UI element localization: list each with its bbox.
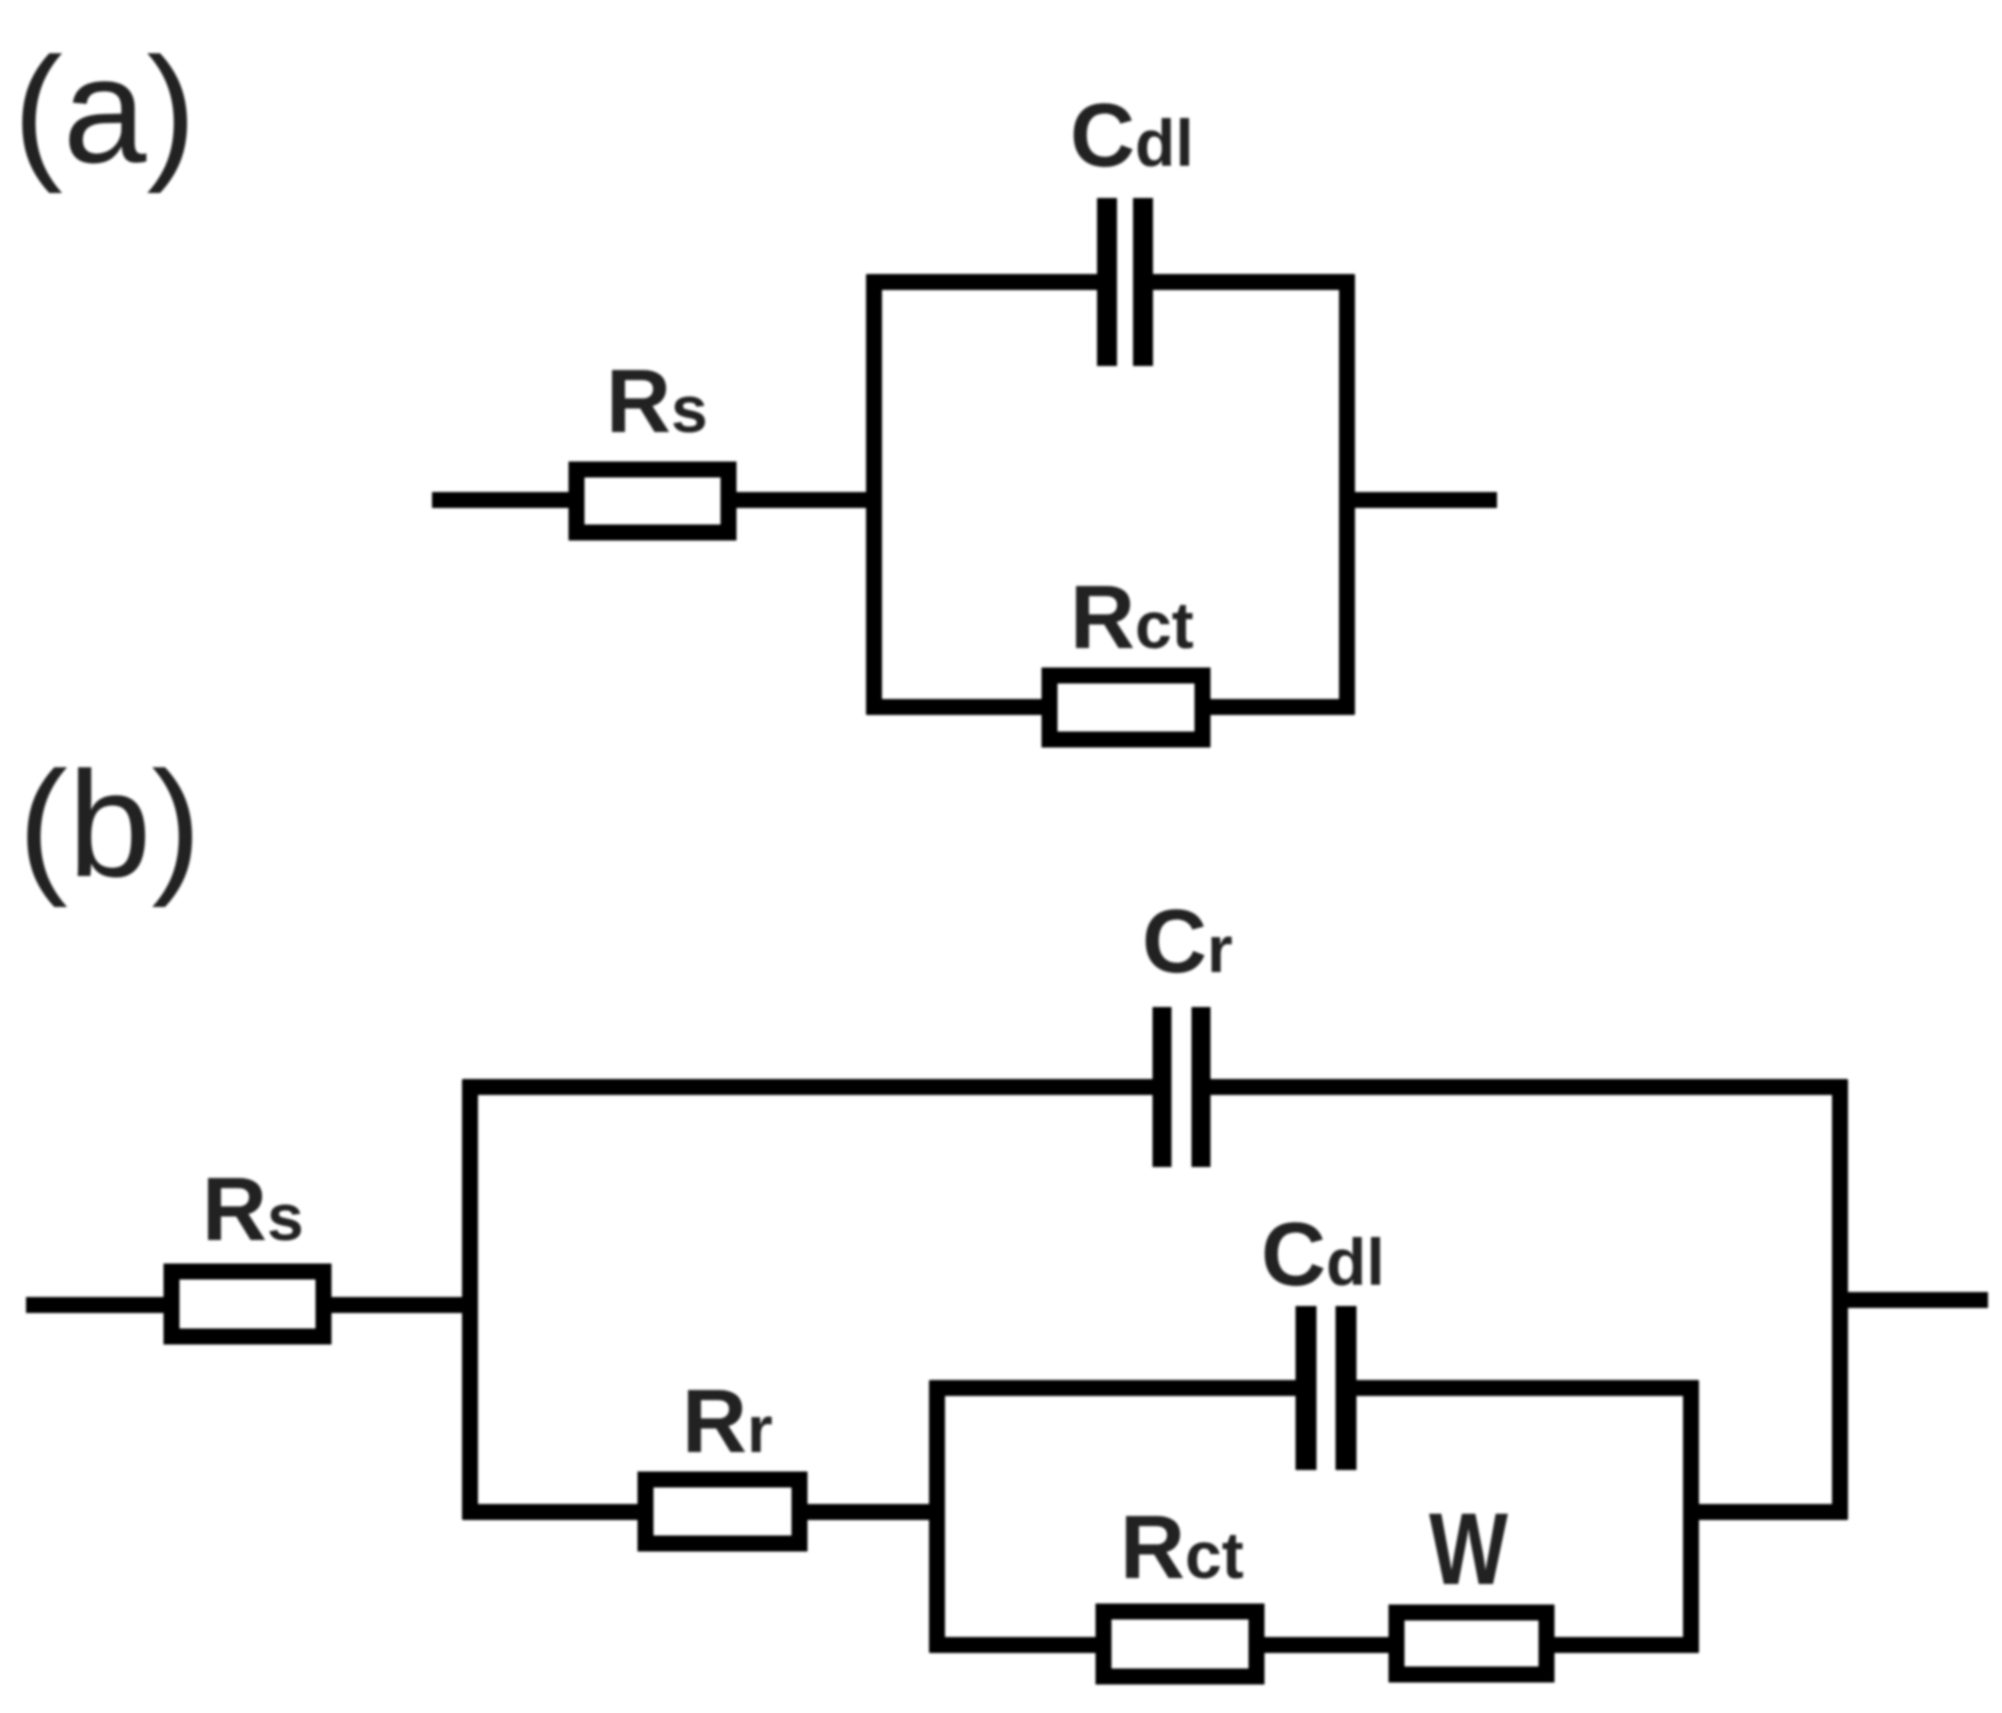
wire inner bottom rail right segment (b): [1546, 1637, 1699, 1653]
wire outer top edge right segment (b): [1201, 1079, 1848, 1095]
label Rct (b): [1120, 1498, 1244, 1598]
svg-text:W: W: [1429, 1492, 1509, 1606]
wire Rr to inner box (b): [807, 1504, 945, 1520]
wire inner box to outer right edge (b): [1691, 1504, 1848, 1520]
wire inner bottom rail middle segment (b): [1256, 1637, 1397, 1653]
wire output lead (b): [1848, 1292, 1989, 1308]
wire inner top edge left segment (b): [930, 1380, 1307, 1396]
resistor Rs (a): [577, 470, 729, 533]
label Rs (a): [606, 352, 708, 452]
resistor Rct (a): [1050, 676, 1203, 740]
node right edge of parallel box (a): [1339, 275, 1355, 715]
resistor Rct (b): [1104, 1612, 1257, 1677]
panel label (b): [18, 740, 201, 908]
wire top edge right segment (a): [1143, 274, 1355, 290]
node left edge of outer box (b): [462, 1080, 478, 1520]
node right edge of inner box (b): [1683, 1381, 1699, 1653]
wire bottom rail to Rr (b): [463, 1504, 647, 1520]
wire left lead (b): [26, 1297, 172, 1313]
svg-text:(b): (b): [18, 740, 201, 908]
panel label (a): [13, 26, 196, 194]
label Cdl (b): [1261, 1205, 1385, 1305]
capacitor Cdl (b): [1306, 1306, 1346, 1470]
svg-text:(a): (a): [13, 26, 196, 194]
wire inner bottom rail left segment (b): [930, 1637, 1105, 1653]
label Cdl (a): [1070, 86, 1194, 186]
wire Rs to outer box (b): [331, 1297, 470, 1313]
capacitor Cr (b): [1162, 1007, 1201, 1167]
node left edge of parallel box (a): [866, 275, 882, 715]
wire bottom edge left segment (a): [867, 699, 1051, 715]
label Cr (b): [1142, 892, 1233, 992]
resistor Rs (b): [172, 1272, 324, 1337]
label Rs (b): [202, 1160, 304, 1260]
resistor Rr (b): [646, 1480, 800, 1544]
label Rct (a): [1070, 568, 1194, 668]
resistor W (b): [1397, 1613, 1547, 1675]
label W (b): [1429, 1492, 1509, 1606]
wire right lead (a): [1347, 492, 1497, 508]
node right edge of outer box (b): [1832, 1080, 1848, 1520]
wire outer top edge left segment (b): [463, 1079, 1163, 1095]
wire top edge left segment (a): [867, 274, 1108, 290]
wire left lead (a): [432, 492, 577, 508]
node left edge of inner box (b): [929, 1381, 945, 1653]
wire Rs to parallel box (a): [736, 492, 874, 508]
capacitor Cdl (a): [1107, 198, 1143, 366]
label Rr (b): [682, 1372, 773, 1472]
wire inner top edge right segment (b): [1346, 1380, 1699, 1396]
wire bottom edge right segment (a): [1202, 699, 1355, 715]
